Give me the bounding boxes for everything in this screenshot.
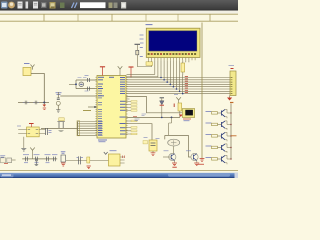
row Q2 [206,121,232,130]
scattered designator text specks [17,66,234,151]
junction [171,117,173,119]
toolbar icon: pencil [26,2,29,9]
toolbar icon: window [1,2,8,9]
toolbar icon: grey box [41,2,47,8]
band tick x78 [77,14,79,21]
wire P1 left pin [88,106,97,108]
long wire net x202 [201,23,203,159]
LS1 designator text [24,63,30,65]
ground symbol under rail [43,103,47,110]
row Q1 [206,109,232,118]
sheet top border band line2 [0,20,238,22]
capacitor row C10 [23,155,29,163]
bus junction dots [160,77,183,95]
resistor ladder RP1 on P0 [77,121,97,136]
wire to buzzer cap [127,124,153,140]
crystal Y1 [78,78,87,87]
power Y symbol mid [176,97,181,103]
resistor R3 vertical [174,103,181,117]
MCU designator text U2 [98,140,107,142]
band tick x210 [209,14,211,21]
sheet top border band line1 [0,13,238,15]
voltage regulator U1 [18,124,51,152]
capacitor C5 [88,87,90,91]
red net label speck right of MCU [133,116,137,117]
bottom status/scroll bar [0,173,238,178]
LCD module frame [146,28,200,57]
MCU pin tick marks [95,77,127,135]
LCD pin stubs [149,58,196,61]
toolbar icon: page2 [33,2,38,9]
row Q5 [206,155,232,164]
band tick x146 [145,14,147,21]
bus net labels red [185,76,188,93]
sensor DS18B20 [61,152,66,166]
EA power T red [129,66,134,68]
transistor Q6 [163,153,177,167]
power rail bottom left [22,148,57,159]
wire P2 row [127,116,181,118]
ground at bottom of long wire [198,159,204,165]
toolbar [0,0,238,11]
collector rail [230,104,232,160]
capacitor C3 stack [56,92,62,112]
MCU pin name text specks right [120,77,126,135]
power Y symbol on MCU top [118,66,123,75]
header J2 bus connector [227,69,236,101]
wire LS1 to rail [31,74,44,103]
capacitor row C11 [34,155,40,163]
LED D1 [160,98,164,118]
row Q4 [206,144,232,153]
crystal circuit wires [69,80,97,89]
capacitor C4 [88,78,90,82]
data bus wires D0-D7 [127,78,231,94]
toolbar icon: last page [121,2,126,9]
wire sensor row [66,160,109,162]
LCD pin number strip [148,53,197,55]
band tick x178 [177,14,179,21]
power connector J1 [0,156,15,164]
junction node rail [43,102,45,104]
MCU pin name text specks left [98,77,114,136]
capacitor row C13 [52,155,57,161]
reset button S1 [41,118,78,132]
MCU lower right stubs [126,120,137,135]
capacitor C1 on rail [23,101,29,105]
band tick x44 [43,14,45,21]
toolbar icon: blue slashes [72,3,78,9]
LCD screen [149,31,197,51]
toolbar icon: small khaki pair [109,3,113,9]
LCD control wire drops [126,60,157,77]
rail junction dots [230,112,231,159]
capacitor C9 polarized [143,140,157,156]
relay K1 with black body [179,109,195,121]
transistor Q7 [191,153,199,165]
toolbar icon: page [18,2,23,9]
viewport strip above sheet [0,10,238,14]
band tick x112 [111,14,113,21]
MCU left pin name specks dense [98,84,102,135]
MCU right net label stubs [126,99,137,111]
toolbar icon: dark green [60,3,65,9]
serial IC U3 [104,151,125,166]
toolbar icon: khaki folder [50,2,56,9]
motor/coil M1 [165,135,191,157]
VCC power bar red on MCU top [100,67,105,76]
capacitor row C12 [45,155,51,163]
contrast pot cluster [135,44,153,66]
wire down to motor [169,117,172,135]
net labels left of LCD [140,35,144,43]
junction crystal [75,83,77,85]
capacitor C14 [77,156,84,164]
capacitor C2 on rail [33,101,39,105]
speaker LS1 [23,65,35,76]
sheet bottom border line [0,170,238,172]
toolbar text field [80,2,106,8]
MCU U2 body [97,76,126,139]
toolbar icon: amber ball [8,2,15,9]
LCD designator text [146,24,153,26]
rail top mark [230,102,233,104]
net stub right [231,135,237,137]
resistor R4 [87,157,91,169]
backlight resistor R2 [181,60,189,75]
row Q3 [206,132,232,141]
wire to relay with bend [127,97,183,113]
wire rail AVCC [18,102,49,104]
wire RST to MCU [60,95,97,97]
LCD data wire drops [161,60,183,93]
schematic sheet background [0,10,238,173]
ground stub on rail [35,159,39,166]
